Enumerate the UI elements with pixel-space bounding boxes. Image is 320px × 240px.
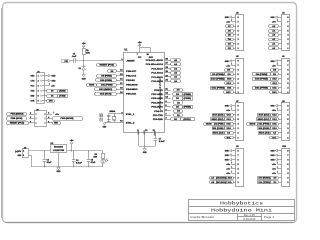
svg-text:26: 26 [165,67,167,69]
svg-text:PB1-OC1: PB1-OC1 [126,76,137,78]
svg-text:C3 22P: C3 22P [100,112,102,122]
wire regulator out rail [67,150,103,152]
svg-text:Page 1: Page 1 [264,215,275,219]
pin 10 XTAL2 [120,121,135,125]
svg-text:PC4-SDA-ADC4: PC4-SDA-ADC4 [146,63,164,66]
wire J2 gnd down [29,155,32,167]
svg-text:MISO (D12): MISO (D12) [212,119,224,121]
connector J7 body and pins [232,101,244,140]
svg-text:8: 8 [238,17,239,19]
capacitor C5b 47uF [87,151,97,167]
connector J1 body [37,71,45,103]
capacitor C3 22P [100,112,111,122]
svg-text:D10 (PWM): D10 (PWM) [211,79,224,81]
svg-text:6: 6 [165,109,166,111]
svg-text:RESET (PC6): RESET (PC6) [10,123,25,125]
svg-text:AVCC: AVCC [149,56,154,59]
svg-text:1: 1 [238,137,239,139]
regulator U2 [51,143,67,153]
svg-text:D9 (PWM): D9 (PWM) [212,74,224,76]
net flag DTR at J1 [44,100,54,103]
pin 20 AVCC [146,54,153,59]
svg-text:6: 6 [238,115,239,117]
svg-text:8: 8 [238,61,239,63]
svg-text:4: 4 [287,34,288,37]
svg-text:CTS: CTS [30,80,34,82]
connector J4 net labels [269,16,279,50]
IC U1 part name vertical [158,77,162,110]
svg-text:PD0-RXD: PD0-RXD [153,119,163,121]
svg-text:2: 2 [38,80,39,82]
net flag D1 [174,114,183,117]
connector J2 labels [15,151,24,157]
svg-text:6: 6 [287,26,288,28]
svg-text:D1: D1 [79,68,81,70]
svg-text:TXD: TXD [30,91,34,93]
svg-text:GND: GND [271,155,275,157]
svg-text:Hobbyduino Mini: Hobbyduino Mini [211,208,272,214]
svg-text:4: 4 [238,123,239,126]
connector J7 net labels [204,104,234,139]
svg-text:1: 1 [38,75,39,77]
svg-text:PD7-AIN1: PD7-AIN1 [151,93,163,96]
net flag MOSI [87,84,97,87]
svg-text:4: 4 [48,116,49,119]
svg-text:7: 7 [238,155,239,157]
svg-text:GND: GND [17,155,21,157]
connector J9 body and pins [232,146,244,186]
svg-text:D13 (SCK): D13 (SCK) [100,93,112,95]
svg-text:0.1uF: 0.1uF [159,141,166,143]
net flag DTR left [61,59,71,63]
svg-text:7: 7 [238,21,239,23]
svg-text:330: 330 [93,157,97,159]
svg-text:3: 3 [38,85,39,87]
svg-text:SDA (A4): SDA (A4) [259,132,270,135]
svg-text:PC2-ADC2: PC2-ADC2 [151,72,163,75]
diode D1 on reset [79,61,86,70]
connector J9 net labels [210,149,234,184]
svg-text:D10 (PWM): D10 (PWM) [100,80,112,82]
connector J5 body [35,109,47,126]
net flag D11 (PWM) [97,84,117,87]
svg-text:D0: D0 [51,90,53,92]
ground below D1 [82,70,86,80]
pin 9 XTAL1 [121,112,135,116]
svg-text:7: 7 [287,21,288,23]
svg-text:4: 4 [38,89,39,92]
svg-text:DTR: DTR [30,101,34,103]
svg-text:(PWM): (PWM) [184,94,191,96]
svg-text:2: 2 [238,133,239,135]
svg-text:D8: D8 [111,71,113,73]
svg-text:GND: GND [271,150,275,152]
svg-text:8: 8 [287,150,288,152]
svg-text:6: 6 [287,70,288,72]
title block frame [189,200,295,221]
wire gnd rail under U1 [139,146,155,148]
svg-text:PD5-T1: PD5-T1 [154,90,164,92]
wire J1 pin2 gnd [44,79,55,82]
net flag D5 (PWM) [173,106,193,109]
svg-text:GND: GND [225,155,229,157]
svg-text:GND: GND [271,159,275,161]
svg-text:8: 8 [287,17,288,19]
LED D2 PWR [101,158,108,167]
U1 right PC pins [146,59,171,84]
svg-text:GND: GND [225,159,229,161]
svg-text:RESET (PC6): RESET (PC6) [100,64,115,66]
+5V symbol above U1 [138,42,143,48]
connector J6 net labels [253,60,279,94]
svg-text:2: 2 [238,44,239,46]
connector J10 net labels [258,149,279,184]
svg-text:7: 7 [238,110,239,112]
net flag PB5 (SCK) [7,117,27,121]
svg-text:3: 3 [238,83,239,85]
svg-text:7: 7 [287,110,288,112]
svg-text:PC5-SCL-ADC5: PC5-SCL-ADC5 [146,59,164,62]
wire 9V to regulator [29,150,50,152]
svg-text:SDA: SDA [228,177,233,180]
net flag PB3 (MOSI) [53,117,83,121]
+5V symbol power rail [70,140,75,151]
pin 21 AREF stub [153,129,157,138]
capacitor C2 22P [102,112,110,122]
svg-text:16: 16 [120,79,122,81]
net flag D12 (MISO) [95,88,117,91]
svg-text:D11 (PWM): D11 (PWM) [101,84,113,86]
svg-text:7: 7 [137,54,138,56]
svg-text:RXD: RXD [30,96,34,98]
svg-text:SCL: SCL [272,137,277,139]
connector J1 pins [30,75,44,103]
svg-text:SS (D10): SS (D10) [213,128,224,130]
net flag PB4 (MISO) [7,113,27,116]
svg-text:12: 12 [165,97,167,99]
capacitor C5 [71,54,78,63]
svg-text:6: 6 [38,101,39,103]
wire gnd rail power [31,166,103,168]
svg-text:5: 5 [238,74,239,76]
svg-text:GND: GND [138,129,140,134]
svg-text:16MHz: 16MHz [109,111,115,113]
svg-text:D0 (RXD): D0 (RXD) [259,178,271,180]
svg-text:7: 7 [287,155,288,157]
svg-text:7: 7 [238,65,239,67]
net flag RESET (PC6) at J5 [7,122,29,125]
net flag D1 (TXD) at J1 [44,95,67,98]
title author Curtis Brooks [190,215,215,219]
svg-text:1: 1 [287,182,288,184]
wire J1 pin1 gnd [44,74,55,77]
wire J1 pin3 +5v [44,83,55,88]
svg-text:8: 8 [287,61,288,63]
svg-text:3: 3 [287,83,288,85]
svg-text:Hobbybotics: Hobbybotics [220,200,263,206]
svg-text:5: 5 [287,119,288,121]
net flag D4 [174,110,183,113]
connector J3 body and pins [232,13,244,51]
svg-text:Rev 1.06: Rev 1.06 [244,214,256,217]
svg-text:7: 7 [287,65,288,67]
svg-text:2: 2 [23,155,24,157]
net flag D5 row1 [174,89,183,92]
capacitor C6 0.1uF [72,151,83,167]
svg-text:3: 3 [238,128,239,130]
capacitor C7 [154,138,166,146]
svg-text:23: 23 [165,80,167,82]
svg-text:GND: GND [57,171,61,173]
svg-text:GND: GND [54,123,58,125]
svg-text:XTAL_1: XTAL_1 [126,113,135,116]
svg-text:D11 (PWM): D11 (PWM) [215,124,224,126]
svg-text:GND: GND [225,150,229,152]
svg-text:5: 5 [238,119,239,121]
svg-text:PD3-INT1: PD3-INT1 [151,107,163,109]
svg-text:MOSI: MOSI [89,84,94,86]
svg-text:D11 (PWM): D11 (PWM) [212,87,225,89]
svg-text:PB3-MOSI: PB3-MOSI [126,85,138,87]
svg-text:4: 4 [287,78,288,81]
svg-text:2: 2 [238,178,239,180]
svg-text:PB3 (MOSI): PB3 (MOSI) [61,118,74,120]
net flag D13 (SCK) [95,93,117,96]
+5v at J5 pin2 [53,111,60,116]
svg-text:6: 6 [238,159,239,161]
svg-text:D10 (PWM): D10 (PWM) [255,79,268,81]
svg-text:PC3-ADC3: PC3-ADC3 [151,67,163,70]
svg-text:2: 2 [165,118,166,120]
svg-text:5: 5 [238,164,239,166]
svg-text:PC1-ADC1: PC1-ADC1 [151,76,163,79]
net flag D9 (PWM) [97,75,117,78]
net flag RESET (PC6) [97,64,117,67]
svg-text:(SDA/D18): (SDA/D18) [217,177,227,180]
svg-text:PB5-SCK: PB5-SCK [126,94,136,96]
svg-text:3: 3 [165,114,166,116]
svg-text:13: 13 [165,93,167,95]
svg-text:4: 4 [238,34,239,37]
svg-text:2: 2 [287,87,288,89]
svg-text:GND: GND [30,75,34,77]
svg-text:PD2-INT0: PD2-INT0 [151,102,163,104]
svg-text:8: 8 [238,150,239,152]
svg-text:GND: GND [225,106,229,108]
net flag GND at J5 [53,122,61,125]
svg-text:(PWM): (PWM) [184,107,191,109]
svg-text:(RXD): (RXD) [183,119,191,121]
svg-text:LD1117V50: LD1117V50 [53,150,65,152]
svg-text:5: 5 [238,30,239,32]
svg-text:1: 1 [30,113,31,115]
connector J8 net labels [247,104,279,139]
svg-text:1: 1 [23,151,24,153]
junction dot reset [83,60,84,61]
net flag D10 (PWM) [96,79,117,82]
svg-text:GND: GND [225,61,229,63]
svg-text:D1 (TXD): D1 (TXD) [259,182,271,184]
svg-text:Curtis Brooks: Curtis Brooks [190,215,215,219]
pin 7 VCC [137,54,142,59]
U1 right PD pins [151,88,170,121]
pin 1 RESET label [121,59,135,63]
svg-text:MOSI: MOSI [250,124,256,126]
svg-text:C2 22P: C2 22P [102,112,104,122]
junction dot gnd under U1 [144,145,145,146]
title text Hobbybotics [220,200,263,206]
svg-text:6: 6 [238,26,239,28]
svg-text:D9 (PWM): D9 (PWM) [101,75,112,77]
svg-text:GND: GND [143,152,147,154]
svg-text:(RXD): (RXD) [59,90,66,92]
svg-text:1: 1 [287,137,288,139]
svg-text:4: 4 [287,167,288,170]
svg-text:GND: GND [103,126,107,128]
wire R1 to reset [83,55,85,61]
svg-text:VCC: VCC [30,85,34,87]
svg-text:PB5 (SCK): PB5 (SCK) [11,118,23,120]
svg-text:MISO (D12): MISO (D12) [258,119,270,121]
svg-text:3: 3 [287,173,288,175]
svg-text:1: 1 [238,182,239,184]
net flag D6 (PWM) [173,97,193,101]
svg-text:(PWM): (PWM) [184,98,191,100]
resistor R1 [83,49,91,55]
svg-text:PD4-T0: PD4-T0 [154,110,164,113]
net flags A5-A0 [171,59,181,83]
svg-text:(SCL/D19): (SCL/D19) [217,182,227,184]
svg-text:D9 (PWM): D9 (PWM) [256,74,268,76]
svg-text:GND: GND [82,78,86,80]
svg-text:5: 5 [30,122,31,124]
connector J8 body and pins [277,101,289,140]
svg-text:PB4-MISO: PB4-MISO [126,88,138,91]
connector J10 body and pins [277,146,289,186]
svg-text:D1: D1 [51,95,53,97]
connector J5 pins [29,113,52,124]
svg-text:8: 8 [287,105,288,107]
svg-text:1: 1 [287,48,288,50]
svg-text:D12 (MISO): D12 (MISO) [99,89,112,91]
svg-text:GND: GND [271,17,275,19]
net flag D2 [174,101,183,105]
svg-text:SCK (D13): SCK (D13) [259,115,270,117]
connector J4 body and pins [277,12,289,51]
connector J2 power in body [23,147,29,157]
svg-text:SCL: SCL [228,182,233,184]
svg-text:3: 3 [30,117,31,119]
svg-text:27: 27 [165,63,167,65]
IC U1 outline [124,53,165,133]
svg-text:5: 5 [287,30,288,32]
ground regulator [57,153,61,174]
svg-text:5: 5 [287,74,288,76]
pin 22 GND stub [144,129,148,146]
wire reset net [77,60,124,62]
svg-text:6: 6 [287,115,288,117]
net flag D8 [108,70,117,73]
wire VCC/AVCC top bracket [140,48,151,53]
title rev [244,214,256,217]
IC U1 designator [124,49,128,52]
svg-text:4: 4 [287,123,288,126]
net flag D0 (RXD) at J1 [44,90,67,93]
U1 left PB pins [116,69,138,96]
svg-text:GND: GND [225,17,229,19]
svg-text:20: 20 [146,54,148,56]
title date [243,218,256,221]
title page [264,215,275,219]
connector J5b net labels [211,60,234,94]
svg-text:3: 3 [287,39,288,41]
svg-text:17: 17 [120,83,122,85]
svg-text:MOSI: MOSI [206,124,212,126]
resistor R2 330 [93,151,104,159]
svg-text:19: 19 [120,92,122,94]
net flag D0 (RXD) [171,118,195,122]
svg-text:6: 6 [287,159,288,161]
wire crystal left leg [108,114,110,123]
svg-text:0.1uF: 0.1uF [76,163,83,165]
svg-text:SCK (D13): SCK (D13) [213,115,224,117]
svg-text:SDA (A4): SDA (A4) [213,132,224,135]
svg-text:D11 (PWM): D11 (PWM) [255,87,268,89]
ground under U1 [143,146,147,154]
svg-text:GND: GND [51,80,55,82]
svg-text:PB0-ICP: PB0-ICP [126,71,137,73]
junction dots power rails [44,150,89,167]
connector J5b body and pins [232,56,244,94]
svg-text:1: 1 [287,92,288,94]
pin 8 GND stub [137,129,140,146]
svg-text:3: 3 [238,173,239,175]
svg-text:GND: GND [271,106,275,108]
svg-text:4: 4 [238,78,239,81]
crystal Y1 16MHz [109,111,116,123]
svg-text:5: 5 [287,164,288,166]
svg-text:PD6-AIN0: PD6-AIN0 [151,97,163,100]
svg-text:XTAL_2: XTAL_2 [126,121,135,124]
connector J6 body and pins [277,56,289,94]
svg-text:6: 6 [48,122,49,124]
title text Hobbyduino Mini [211,208,272,214]
wire XTAL2 [109,122,124,124]
svg-text:GND: GND [271,61,275,63]
svg-text:-RESET: -RESET [126,60,135,62]
svg-text:2: 2 [287,44,288,46]
svg-text:MC33269: MC33269 [54,147,64,149]
svg-text:GND: GND [144,129,146,134]
wire XTAL1 [109,113,124,115]
svg-text:2: 2 [287,178,288,180]
svg-text:4: 4 [238,167,239,170]
connector J3 net labels [225,16,234,50]
svg-text:8: 8 [238,105,239,107]
svg-text:D11 (PWM): D11 (PWM) [259,124,270,126]
svg-text:PC0-ADC0: PC0-ADC0 [151,80,163,83]
net flag D3 (PWM) [173,93,193,96]
svg-text:1: 1 [238,48,239,50]
svg-text:3: 3 [238,39,239,41]
svg-text:PD1-TXD: PD1-TXD [153,115,163,117]
svg-text:1: 1 [238,92,239,94]
svg-text:(TXD): (TXD) [59,95,66,97]
svg-text:2: 2 [287,133,288,135]
capacitor C4 47uF [43,151,53,167]
svg-text:(+)9V: (+)9V [15,151,22,153]
svg-text:6: 6 [238,70,239,72]
